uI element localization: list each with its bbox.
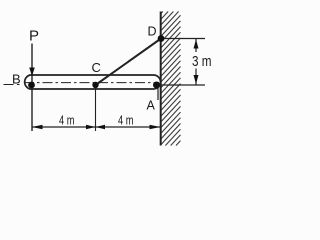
arrow left into C — [96, 125, 106, 130]
svg-text:4 m: 4 m — [118, 113, 134, 128]
extension line below C — [95, 85, 97, 131]
svg-text:A: A — [147, 99, 156, 113]
beam BA outline — [25, 75, 161, 89]
svg-text:B: B — [12, 72, 21, 87]
extension line from D (3 m dim, top) — [163, 38, 205, 40]
svg-text:4 m: 4 m — [59, 113, 75, 128]
pin C — [92, 82, 98, 88]
svg-text:C: C — [92, 60, 101, 75]
arrow left at B — [32, 125, 43, 130]
3m dimension line upper part — [195, 39, 197, 53]
extension line at A level (3 m dim, bottom) — [159, 84, 205, 86]
arrow up at D level — [194, 40, 199, 49]
force P line — [31, 44, 33, 132]
dimension line 4m+4m — [32, 126, 160, 128]
arrow right into C — [86, 125, 96, 130]
beam centerline left stub — [4, 84, 23, 86]
tie rod CD — [96, 39, 162, 86]
svg-text:P: P — [29, 28, 39, 45]
svg-text:3 m: 3 m — [192, 53, 212, 70]
wall hatching — [161, 12, 181, 146]
force P arrowhead — [29, 68, 35, 77]
arrow down at A level — [194, 75, 199, 84]
3m dimension line lower part — [195, 69, 197, 86]
pin A — [153, 82, 160, 89]
beam centerline — [24, 82, 159, 84]
arrow right at wall — [150, 125, 161, 130]
wall edge — [160, 12, 162, 146]
stub line below pin A — [157, 88, 159, 100]
pin B — [28, 82, 35, 89]
svg-text:D: D — [148, 25, 157, 39]
pin D — [158, 35, 165, 42]
